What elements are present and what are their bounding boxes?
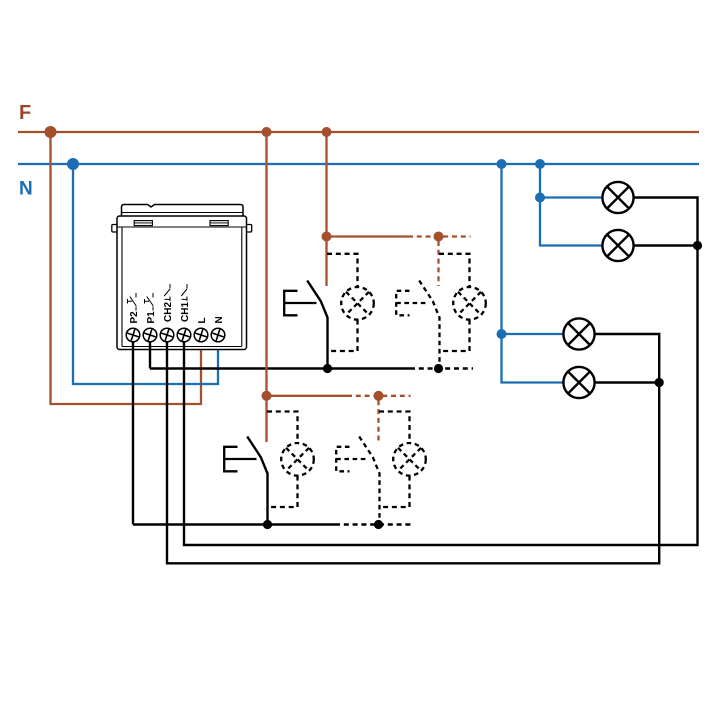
lamp E1	[602, 182, 633, 213]
wire N to lamps E3 E4	[502, 164, 564, 383]
junction lamp E4 return	[655, 378, 664, 387]
indicator lamp S1	[341, 287, 374, 320]
terminal screw L	[193, 327, 208, 342]
wire N to lamps E1 E2	[540, 164, 602, 246]
wire branch lamp E1	[540, 196, 602, 198]
lamp E2	[602, 230, 633, 261]
junction on N rail to lamps E3 E4	[497, 159, 507, 169]
brown bus row2 solid	[267, 395, 348, 397]
wire S4 feed dashed	[377, 400, 379, 442]
wire S2 feed dashed	[437, 241, 439, 286]
indicator lamp S2 connectors dashed	[439, 254, 470, 287]
wire branch lamp E3	[502, 333, 564, 335]
junction lamp E1 feed	[535, 193, 545, 203]
junction on F rail (left)	[45, 126, 57, 138]
push-button S3 contact blade	[247, 437, 267, 525]
push-button S2 actuator dashed	[396, 291, 428, 316]
side clip right	[247, 225, 252, 233]
junction S4 output	[374, 520, 383, 529]
latch window right	[210, 221, 228, 226]
wire lamp E4 return branch	[595, 381, 659, 383]
junction S1 feed	[322, 232, 332, 242]
indicator lamp S1 connectors dashed	[327, 254, 358, 287]
pictogram push-button at P2	[128, 293, 137, 311]
svg-text:CH2: CH2	[163, 302, 174, 322]
latch window left	[134, 221, 152, 226]
junction on N rail to lamps E1 E2	[535, 159, 545, 169]
indicator lamp S4 connectors dashed	[379, 412, 410, 444]
neutral rail N	[18, 163, 699, 165]
side clip left	[112, 225, 117, 233]
wire P1 to upper bus	[149, 342, 151, 369]
svg-text:CH1: CH1	[180, 302, 191, 322]
pictogram switch contact at CH1	[181, 284, 187, 301]
module lid	[122, 205, 244, 217]
terminal screws P2 P1 CH2 CH1 L N	[125, 327, 225, 342]
svg-text:F: F	[19, 102, 31, 124]
terminal screw N	[210, 327, 225, 342]
junction S2 output	[434, 364, 443, 373]
svg-text:N: N	[214, 316, 225, 323]
junction on F rail to S1	[322, 127, 332, 137]
terminal labels	[129, 302, 225, 324]
push-button S3 actuator	[224, 447, 256, 472]
wire CH1 to lamps E1 E2 return	[184, 198, 698, 546]
terminal screw P2	[125, 327, 140, 342]
pictogram push-button at P1	[145, 293, 154, 311]
push-button S1 actuator	[284, 291, 316, 316]
wire P2 to lower bus	[132, 342, 134, 525]
bus row2 dashed	[335, 523, 414, 525]
svg-text:N: N	[19, 179, 33, 200]
junction lamp E2 return	[693, 241, 702, 250]
svg-text:P1: P1	[146, 311, 157, 324]
junction S4 feed	[374, 391, 384, 401]
push-button S4 contact blade dashed	[359, 437, 379, 525]
wire lamp E2 return branch	[633, 244, 697, 246]
wire F to switch S3	[265, 132, 267, 442]
wire F to terminal L	[51, 132, 202, 404]
svg-text:L: L	[197, 317, 208, 323]
bus row1 solid	[150, 367, 410, 369]
junction S1 output	[323, 364, 332, 373]
bus row2 solid	[133, 523, 335, 525]
lamp E3	[563, 318, 594, 349]
indicator lamp S3 connectors dashed	[267, 412, 298, 444]
phase rail F	[18, 131, 699, 133]
indicator lamp S2	[453, 287, 486, 320]
brown bus row2 dashed	[347, 395, 411, 397]
terminal screw CH1	[176, 327, 191, 342]
indicator lamp S3	[281, 443, 314, 476]
module inner walls	[121, 227, 123, 347]
svg-text:P2: P2	[129, 311, 140, 324]
push-button S4 actuator dashed	[336, 447, 368, 472]
junction S2 feed	[434, 232, 444, 242]
wire CH2 to lamps E3 E4 return	[167, 334, 659, 563]
junction on F rail to S3	[262, 127, 272, 137]
brown bus row1 dashed	[408, 235, 471, 237]
junction S3 output	[263, 520, 272, 529]
junction S3 feed	[262, 391, 272, 401]
bus row1 dashed	[410, 367, 473, 369]
pictogram switch contact at CH2	[164, 284, 170, 301]
brown bus row1 solid	[327, 235, 409, 237]
junction on N rail (left)	[67, 158, 79, 170]
terminal screw CH2	[159, 327, 174, 342]
terminal screw P1	[142, 327, 157, 342]
push-button S1 contact blade	[307, 281, 327, 369]
wire N rail to terminal N	[73, 164, 218, 384]
lamp E4	[563, 367, 594, 398]
indicator lamp S4	[393, 443, 426, 476]
push-button S2 contact blade dashed	[419, 281, 439, 369]
module body	[117, 216, 247, 350]
junction lamp E3 feed	[497, 329, 507, 339]
relay module U1	[112, 205, 252, 350]
wire F to switch S1	[325, 132, 327, 286]
